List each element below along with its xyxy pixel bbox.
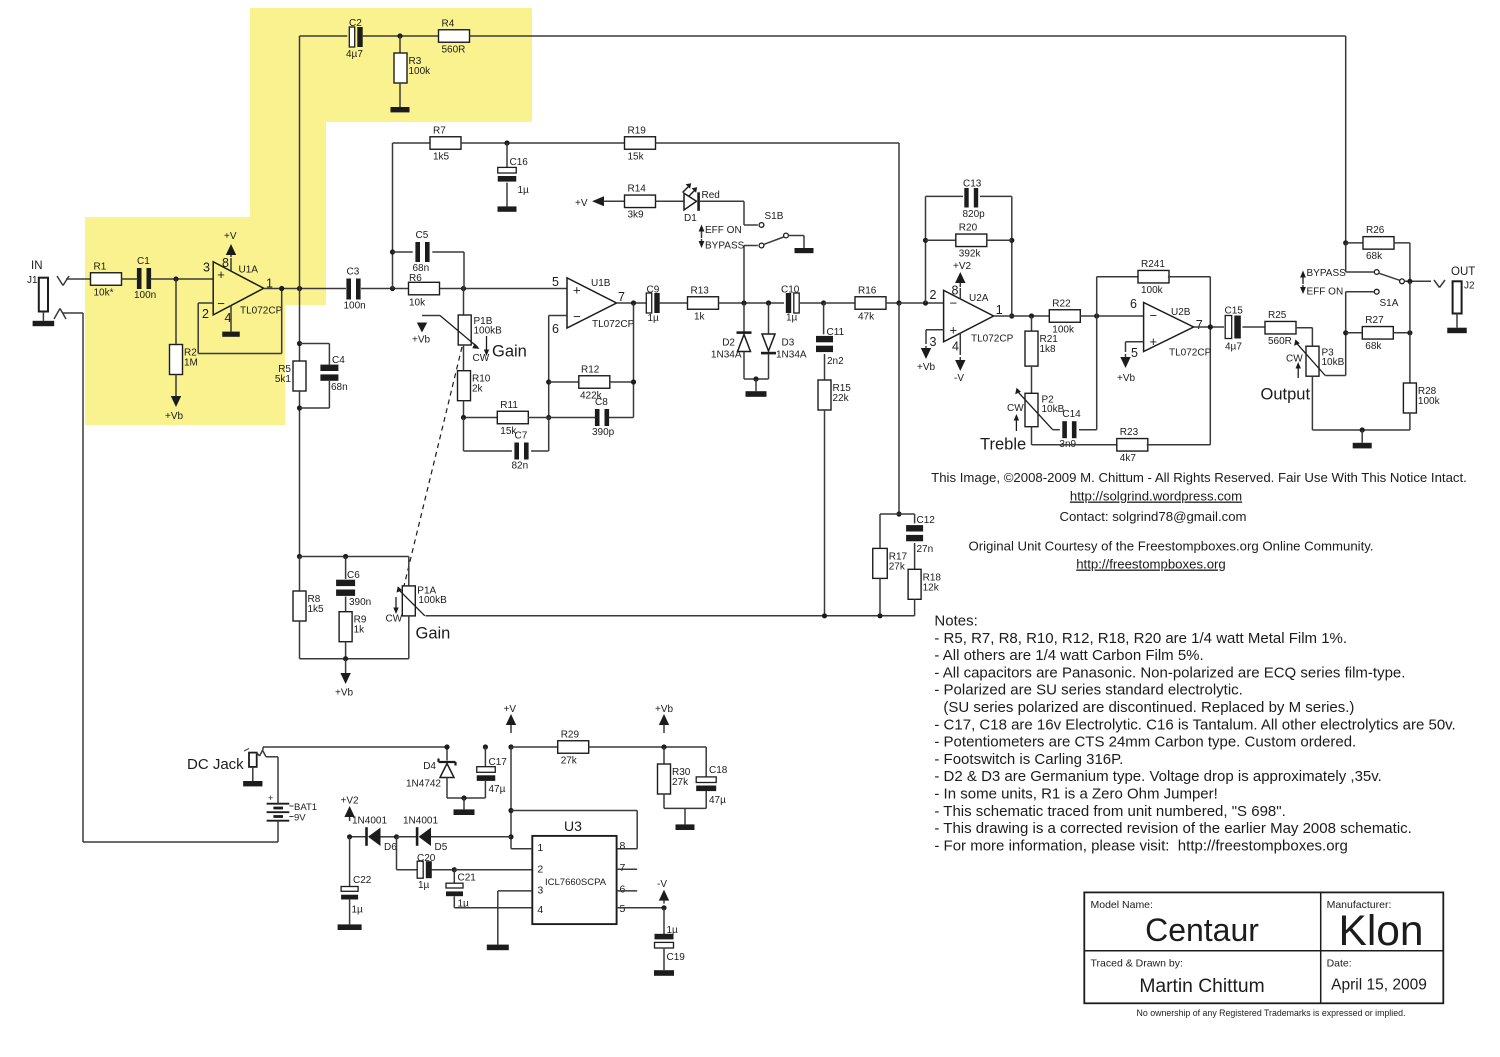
label Treble xyxy=(980,436,1026,454)
power +V (R14 feed) xyxy=(575,196,625,209)
capacitor C17 (47u) xyxy=(477,744,508,798)
wire (C3 to R6) xyxy=(361,286,408,291)
svg-text:C13: C13 xyxy=(963,179,982,190)
title block xyxy=(1084,892,1443,1003)
svg-text:(SU series polarized are disco: (SU series polarized are discontinued. R… xyxy=(943,699,1354,716)
svg-text:C7: C7 xyxy=(515,431,528,442)
svg-text:22k: 22k xyxy=(833,393,850,404)
svg-text:April 15, 2009: April 15, 2009 xyxy=(1331,977,1427,994)
ground (J1) xyxy=(33,312,55,327)
svg-text:2: 2 xyxy=(930,288,937,302)
svg-text:- All capacitors are Panasonic: - All capacitors are Panasonic. Non-pola… xyxy=(934,664,1405,681)
capacitor C18 (47u) xyxy=(696,747,728,808)
capacitor C14 xyxy=(1053,316,1097,450)
svg-text:100k: 100k xyxy=(1418,396,1441,407)
power +V2 xyxy=(341,796,360,822)
potentiometer P1B xyxy=(422,289,502,365)
svg-text:R6: R6 xyxy=(409,273,422,284)
svg-text:68n: 68n xyxy=(413,263,430,274)
svg-text:IN: IN xyxy=(31,260,43,272)
svg-text:1µ: 1µ xyxy=(648,313,660,324)
svg-text:1k5: 1k5 xyxy=(433,151,450,162)
ground (C22) xyxy=(338,900,362,930)
power +Vb (P1B) xyxy=(412,323,431,346)
label DC Jack xyxy=(187,756,244,773)
svg-text:10kB: 10kB xyxy=(1322,357,1345,368)
wire (U3 pin7 stub) xyxy=(617,868,638,870)
resistor R3 xyxy=(394,36,431,83)
svg-text:C15: C15 xyxy=(1225,306,1244,317)
svg-text:1N34A: 1N34A xyxy=(776,350,807,361)
svg-text:- In some units, R1 is a Zero: - In some units, R1 is a Zero Ohm Jumper… xyxy=(934,786,1217,803)
svg-text:-V: -V xyxy=(657,879,667,890)
wire (U3 pin1) xyxy=(511,848,532,850)
svg-text:100kB: 100kB xyxy=(474,326,503,337)
capacitor C12 xyxy=(899,514,935,555)
svg-text:TL072CP: TL072CP xyxy=(971,334,1014,345)
svg-text:1: 1 xyxy=(996,303,1003,317)
capacitor C4 xyxy=(300,344,348,409)
resistor R2 xyxy=(170,279,198,375)
zener diode D4 (1N4742) xyxy=(406,744,456,798)
svg-text:82n: 82n xyxy=(512,461,529,472)
svg-text:+Vb: +Vb xyxy=(412,335,431,346)
svg-text:6: 6 xyxy=(620,884,626,896)
svg-text:27k: 27k xyxy=(672,777,689,788)
svg-text:D6: D6 xyxy=(384,842,397,853)
switch S1A xyxy=(1346,243,1405,309)
resistor R241 xyxy=(1097,259,1211,327)
svg-text:TL072CP: TL072CP xyxy=(1169,348,1212,359)
battery BAT1 (9V) xyxy=(267,793,317,842)
wire (U2A feedback rail) xyxy=(923,196,1015,318)
svg-text:CW: CW xyxy=(1007,403,1024,414)
wire (C20 to U3 pin2) xyxy=(454,869,532,871)
resistor R17 xyxy=(873,514,908,616)
svg-text:BYPASS: BYPASS xyxy=(1307,268,1347,279)
resistor R5 xyxy=(275,289,306,557)
svg-text:+Vb: +Vb xyxy=(1117,373,1136,384)
svg-text:5k1: 5k1 xyxy=(275,374,292,385)
svg-text:1N4001: 1N4001 xyxy=(403,816,438,827)
svg-text:−: − xyxy=(950,296,958,311)
svg-text:R11: R11 xyxy=(500,400,518,411)
svg-text:2: 2 xyxy=(202,307,209,321)
svg-text:4k7: 4k7 xyxy=(1120,453,1137,464)
svg-text:Model Name:: Model Name: xyxy=(1091,899,1153,911)
capacitor C3 xyxy=(344,267,366,312)
wire (U1B output rail) xyxy=(617,300,647,417)
svg-text:47k: 47k xyxy=(858,311,875,322)
highlight region (yellow) xyxy=(85,8,532,425)
svg-text:C18: C18 xyxy=(709,765,728,776)
potentiometer P2 xyxy=(1007,388,1065,430)
resistor R10 xyxy=(458,345,491,418)
svg-text:Red: Red xyxy=(702,190,720,201)
svg-text:27k: 27k xyxy=(561,755,578,766)
svg-text:2: 2 xyxy=(537,864,543,876)
svg-text:R19: R19 xyxy=(628,125,647,136)
resistor R8 xyxy=(293,557,324,659)
resistor R14 xyxy=(625,184,656,221)
svg-text:R22: R22 xyxy=(1052,298,1071,309)
svg-text:R20: R20 xyxy=(959,223,978,234)
svg-text:1N34A: 1N34A xyxy=(711,350,742,361)
svg-text:- R5, R7, R8, R10, R12, R18, R: - R5, R7, R8, R10, R12, R18, R20 are 1/4… xyxy=(934,630,1347,647)
svg-text:- All others are 1/4 watt Carb: - All others are 1/4 watt Carbon Film 5%… xyxy=(934,647,1203,664)
svg-text:1k: 1k xyxy=(354,625,366,636)
svg-text:Klon: Klon xyxy=(1338,908,1423,955)
wire (R19 to right rail) xyxy=(656,143,900,303)
svg-text:8: 8 xyxy=(952,284,959,298)
svg-text:C20: C20 xyxy=(417,853,436,864)
svg-text:4µ7: 4µ7 xyxy=(1225,342,1242,353)
svg-text:3: 3 xyxy=(930,335,937,349)
svg-text:- For more information, please: - For more information, please visit: ht… xyxy=(934,837,1348,854)
capacitor C20 xyxy=(397,837,455,891)
svg-text:C14: C14 xyxy=(1062,409,1081,420)
op-amp U2A xyxy=(930,284,1014,354)
wire (R7 left rail) xyxy=(390,143,395,289)
svg-text:C21: C21 xyxy=(458,873,477,884)
svg-text:R23: R23 xyxy=(1120,427,1139,438)
resistor R21 xyxy=(1025,316,1058,393)
svg-text:10k*: 10k* xyxy=(94,287,114,298)
svg-text:U3: U3 xyxy=(564,818,582,834)
wire (U1B pin6 feedback rail) xyxy=(546,316,567,421)
svg-text:+: + xyxy=(950,323,958,338)
svg-text:100n: 100n xyxy=(344,301,366,312)
ground (output) xyxy=(1353,430,1372,448)
capacitor C1 xyxy=(134,256,156,301)
svg-text:http://solgrind.wordpress.com: http://solgrind.wordpress.com xyxy=(1070,489,1242,504)
svg-text:100kB: 100kB xyxy=(418,595,447,606)
wire (D4/C17 bottom) xyxy=(447,795,485,800)
wire (+V down to U3) xyxy=(508,747,513,849)
svg-text:1k5: 1k5 xyxy=(308,604,325,615)
svg-text:Treble: Treble xyxy=(980,436,1026,454)
switch S1B xyxy=(744,201,788,303)
svg-text:Notes:: Notes: xyxy=(934,613,977,630)
svg-text:S1A: S1A xyxy=(1380,298,1399,309)
svg-text:C9: C9 xyxy=(647,285,660,296)
svg-text:3k9: 3k9 xyxy=(628,210,645,221)
resistor R13 xyxy=(688,285,785,322)
svg-text:6: 6 xyxy=(552,322,559,336)
label CW arrow (P1A) xyxy=(393,597,398,614)
ground (D4 C17) xyxy=(454,798,475,815)
capacitor C21 xyxy=(446,867,476,909)
svg-text:100k: 100k xyxy=(1141,285,1164,296)
svg-text:Contact: solgrind78@gmail.com: Contact: solgrind78@gmail.com xyxy=(1059,509,1246,524)
svg-text:U1B: U1B xyxy=(591,278,611,289)
svg-text:+: + xyxy=(573,283,581,298)
wire (gain block bottom edge) xyxy=(300,656,409,661)
power +Vb (U2B pin5) xyxy=(1117,342,1144,384)
svg-text:10k: 10k xyxy=(409,297,426,308)
svg-text:OUT: OUT xyxy=(1451,266,1475,278)
wire (U1A feedback loop) xyxy=(198,289,282,354)
wire (gain block top edge) xyxy=(297,554,409,559)
diode D3 (1N34A) xyxy=(761,303,807,379)
wire (C10-R16 junction) xyxy=(821,300,856,305)
svg-text:+Vb: +Vb xyxy=(165,411,184,422)
wire (DC jack to battery) xyxy=(263,751,278,801)
copyright text xyxy=(931,470,1467,572)
svg-text:5: 5 xyxy=(1131,346,1138,360)
svg-text:U2A: U2A xyxy=(969,293,989,304)
svg-text:Original Unit Courtesy of the: Original Unit Courtesy of the Freestompb… xyxy=(968,539,1373,554)
svg-text:3: 3 xyxy=(203,261,210,275)
label Output xyxy=(1261,386,1311,404)
svg-text:R16: R16 xyxy=(858,285,877,296)
capacitor C9 (1u) xyxy=(646,285,688,325)
resistor R30 xyxy=(658,747,691,808)
svg-text:7: 7 xyxy=(620,862,626,874)
svg-text:Output: Output xyxy=(1261,386,1311,404)
svg-text:1µ: 1µ xyxy=(418,880,430,891)
svg-text:- Polarized are SU series stan: - Polarized are SU series standard elect… xyxy=(934,682,1242,699)
op-amp U1B xyxy=(552,275,635,336)
wire (U1A output) xyxy=(264,286,346,291)
svg-text:+V2: +V2 xyxy=(953,261,972,272)
wire (bottom rail / gain wiper line) xyxy=(426,613,915,618)
capacitor C13 xyxy=(963,179,986,221)
power -V (U2A pin4) xyxy=(954,333,966,384)
svg-text:- Footswitch is Carling 316P.: - Footswitch is Carling 316P. xyxy=(934,751,1123,768)
svg-text:1µ: 1µ xyxy=(518,185,530,196)
svg-text:J2: J2 xyxy=(1464,281,1475,292)
svg-text:68n: 68n xyxy=(331,382,348,393)
label EFF ON / BYPASS (S1B) xyxy=(699,225,745,252)
wire (dashed gang link P1B-P1A) xyxy=(404,347,463,588)
svg-text:TL072CP: TL072CP xyxy=(240,306,283,317)
capacitor C7 xyxy=(464,418,549,472)
svg-text:C3: C3 xyxy=(347,267,360,278)
capacitor C8 xyxy=(549,397,634,438)
svg-text:C12: C12 xyxy=(917,515,936,526)
resistor R19 xyxy=(625,125,656,162)
svg-text:No ownership of any Registered: No ownership of any Registered Trademark… xyxy=(1137,1008,1406,1018)
ground (S1B) xyxy=(789,236,814,254)
svg-text:820p: 820p xyxy=(963,209,986,220)
resistor R28 xyxy=(1403,333,1440,430)
svg-text:- This drawing is a corrected: - This drawing is a corrected revision o… xyxy=(934,820,1411,837)
wire (U3 pin5) xyxy=(617,905,667,910)
output jack J2 xyxy=(1434,266,1475,314)
wire (DC jack to supply rail) xyxy=(263,747,447,750)
svg-text:D2: D2 xyxy=(722,338,735,349)
svg-text:4: 4 xyxy=(537,904,543,916)
wire (U2A output) xyxy=(994,313,1050,318)
svg-text:+: + xyxy=(1150,334,1158,349)
resistor R23 xyxy=(1117,327,1211,464)
resistor R29 xyxy=(511,729,706,766)
ground (J2) xyxy=(1447,314,1467,334)
svg-text:Date:: Date: xyxy=(1327,958,1352,970)
svg-text:27k: 27k xyxy=(889,561,906,572)
svg-text:R25: R25 xyxy=(1268,310,1287,321)
svg-text:+: + xyxy=(268,793,273,803)
label BYPASS / EFF ON (S1A) xyxy=(1300,268,1346,298)
svg-text:7: 7 xyxy=(618,290,625,304)
svg-text:EFF ON: EFF ON xyxy=(705,225,742,236)
svg-text:R27: R27 xyxy=(1365,315,1384,326)
svg-text:+Vb: +Vb xyxy=(335,688,354,699)
svg-text:+V: +V xyxy=(224,231,237,242)
svg-text:CW: CW xyxy=(386,614,403,625)
resistor R16 xyxy=(855,285,902,322)
svg-text:+V: +V xyxy=(575,198,588,209)
ground (U1A pin4) xyxy=(222,306,240,337)
resistor R22 xyxy=(1049,298,1143,335)
trademark footer xyxy=(1137,1008,1406,1018)
svg-text:R12: R12 xyxy=(581,364,600,375)
svg-text:S1B: S1B xyxy=(765,211,784,222)
svg-text:C8: C8 xyxy=(595,397,608,408)
svg-text:27n: 27n xyxy=(917,544,934,555)
resistor R1 xyxy=(91,261,122,298)
svg-text:R241: R241 xyxy=(1141,259,1165,270)
svg-text:1µ: 1µ xyxy=(786,313,798,324)
wire (U3 pin6 stub) xyxy=(617,890,638,892)
input jack J1 xyxy=(27,260,48,312)
wire (R6 to U1B+) xyxy=(440,286,567,291)
svg-text:1N4001: 1N4001 xyxy=(352,816,387,827)
svg-text:Centaur: Centaur xyxy=(1145,912,1259,948)
capacitor C22 xyxy=(341,837,372,916)
svg-text:- D2 & D3 are Germanium type.: - D2 & D3 are Germanium type. Voltage dr… xyxy=(934,768,1381,785)
svg-text:Gain: Gain xyxy=(492,343,527,361)
svg-text:1µ: 1µ xyxy=(352,905,364,916)
svg-text:D5: D5 xyxy=(435,842,448,853)
power +Vb (gain block) xyxy=(335,659,354,699)
svg-text:100k: 100k xyxy=(409,66,432,77)
svg-text:8: 8 xyxy=(222,256,229,270)
svg-text:560R: 560R xyxy=(442,44,466,55)
resistor R27 xyxy=(1346,281,1413,352)
DC jack xyxy=(244,749,263,767)
svg-text:1k8: 1k8 xyxy=(1040,344,1057,355)
svg-text:D1: D1 xyxy=(684,213,697,224)
label Gain (P1A) xyxy=(416,625,451,643)
svg-text:ICL7660SCPA: ICL7660SCPA xyxy=(545,877,607,888)
svg-text:7: 7 xyxy=(1196,318,1203,332)
svg-text:C2: C2 xyxy=(349,18,362,29)
svg-text:390n: 390n xyxy=(349,597,371,608)
resistor R4 xyxy=(439,18,470,55)
wire (R4 to output network) xyxy=(470,36,1346,243)
svg-text:C16: C16 xyxy=(510,157,529,168)
op-amp U2B xyxy=(1130,297,1212,360)
power +Vb (below R2) xyxy=(165,374,184,422)
svg-text:- C17, C18 are 16v Electrolyti: - C17, C18 are 16v Electrolytic. C16 is … xyxy=(934,716,1455,733)
svg-text:+Vb: +Vb xyxy=(917,362,936,373)
label Gain (P1B) with arrow xyxy=(484,336,527,361)
wire (C21 to U3 pin4) xyxy=(454,907,532,909)
capacitor C6 xyxy=(336,557,371,609)
svg-text:U2B: U2B xyxy=(1171,307,1191,318)
svg-text:6: 6 xyxy=(1130,297,1137,311)
ground (U3 pin3) xyxy=(487,945,509,951)
svg-text:Martin Chittum: Martin Chittum xyxy=(1139,976,1264,997)
svg-text:U1A: U1A xyxy=(239,265,259,276)
IC U3 ICL7660SCPA xyxy=(532,818,625,924)
svg-text:560R: 560R xyxy=(1268,336,1292,347)
svg-text:12k: 12k xyxy=(923,582,940,593)
label CW arrow (P3) xyxy=(1296,362,1301,378)
ground (C19) xyxy=(654,948,674,976)
svg-text:390p: 390p xyxy=(592,427,615,438)
svg-text:C10: C10 xyxy=(781,285,800,296)
potentiometer P3 xyxy=(1286,328,1346,430)
svg-text:−: − xyxy=(1150,308,1158,323)
svg-text:R7: R7 xyxy=(433,125,446,136)
power +V (supply) xyxy=(504,704,517,750)
svg-text:EFF ON: EFF ON xyxy=(1307,287,1344,298)
label CW arrow (P2) xyxy=(1014,414,1019,431)
wire (C2 to R4) xyxy=(362,33,439,38)
diode D2 (1N34A) xyxy=(711,303,752,379)
svg-text:R26: R26 xyxy=(1366,225,1385,236)
wire (S1A pole to OUT) xyxy=(1405,279,1432,284)
svg-text:C17: C17 xyxy=(489,757,508,768)
wire (P3 wiper riser) xyxy=(1343,292,1348,376)
svg-text:5: 5 xyxy=(552,275,559,289)
svg-text:68k: 68k xyxy=(1366,251,1383,262)
svg-text:-V: -V xyxy=(954,373,964,384)
svg-text:1µ: 1µ xyxy=(667,925,679,936)
node J1 sleeve contact xyxy=(54,309,83,320)
resistor R7 xyxy=(393,125,626,162)
svg-text:2n2: 2n2 xyxy=(827,356,844,367)
svg-text:47µ: 47µ xyxy=(489,784,506,795)
diode D5 (1N4001) xyxy=(394,816,511,854)
svg-text:392k: 392k xyxy=(959,249,982,260)
ground (DC jack) xyxy=(243,767,262,787)
svg-text:- Potentiometers are CTS 24mm: - Potentiometers are CTS 24mm Carbon typ… xyxy=(934,734,1356,751)
power +Vb (supply) xyxy=(655,704,674,750)
svg-text:D4: D4 xyxy=(423,761,436,772)
svg-text:5: 5 xyxy=(620,903,626,915)
ground (R30 C18) xyxy=(676,808,695,830)
svg-text:Traced & Drawn by:: Traced & Drawn by: xyxy=(1091,958,1183,970)
svg-text:J1: J1 xyxy=(27,275,38,286)
svg-text:1k: 1k xyxy=(694,311,706,322)
resistor R12 xyxy=(549,364,634,401)
resistor R26 xyxy=(1343,225,1410,281)
diode D6 (1N4001) xyxy=(347,816,397,854)
wire (U3 pin8 rail) xyxy=(511,811,637,849)
svg-text:47µ: 47µ xyxy=(709,795,726,806)
power +Vb (U2A pin3) xyxy=(917,330,944,373)
resistor R9 xyxy=(339,597,367,659)
capacitor C15 (4u7) xyxy=(1225,306,1266,353)
svg-text:R29: R29 xyxy=(561,729,580,740)
svg-text:+V2: +V2 xyxy=(341,796,360,807)
svg-text:TL072CP: TL072CP xyxy=(592,319,635,330)
svg-text:9V: 9V xyxy=(294,813,306,824)
wire (R30/C18 bottom) xyxy=(664,807,706,809)
svg-text:DC Jack: DC Jack xyxy=(187,756,244,773)
wire (C1 to U1A+) xyxy=(121,276,213,281)
svg-text:8: 8 xyxy=(620,840,626,852)
potentiometer P1A xyxy=(386,557,448,659)
capacitor C2 (4u7) xyxy=(346,18,363,60)
svg-text:R4: R4 xyxy=(442,18,455,29)
svg-text:http://freestompboxes.org: http://freestompboxes.org xyxy=(1076,557,1226,572)
wire (output up to C2) xyxy=(300,36,348,289)
